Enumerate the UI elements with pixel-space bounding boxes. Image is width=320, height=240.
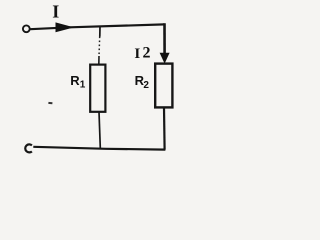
stray mark (small dash left of R1)	[48, 102, 52, 104]
terminal T2 (bottom, open circle)	[25, 144, 32, 152]
wire (branch from top wire down to R1)	[99, 27, 101, 37]
resistor R2 (box)	[155, 64, 172, 108]
svg-text:R: R	[70, 73, 80, 88]
wire (top, from terminal to corner)	[30, 24, 164, 29]
wire (bottom rail)	[33, 147, 165, 150]
svg-text:1: 1	[80, 79, 86, 90]
paper background	[0, 0, 194, 160]
svg-text:2: 2	[143, 80, 149, 91]
svg-text:I: I	[52, 2, 59, 22]
current arrow I2 (downward arrowhead into R2)	[160, 53, 170, 64]
svg-text:I: I	[134, 46, 140, 62]
wire (R2 bottom lead to bottom rail)	[163, 107, 166, 149]
wire (R1 bottom lead to bottom rail)	[99, 112, 100, 148]
current arrow I (rightward arrowhead on top wire)	[56, 22, 75, 32]
wire (right vertical, corner down to arrow I2)	[163, 23, 166, 54]
terminal T1 (top input, open circle)	[23, 25, 30, 32]
svg-text:2: 2	[143, 44, 151, 61]
resistor R1 (box)	[90, 65, 105, 112]
